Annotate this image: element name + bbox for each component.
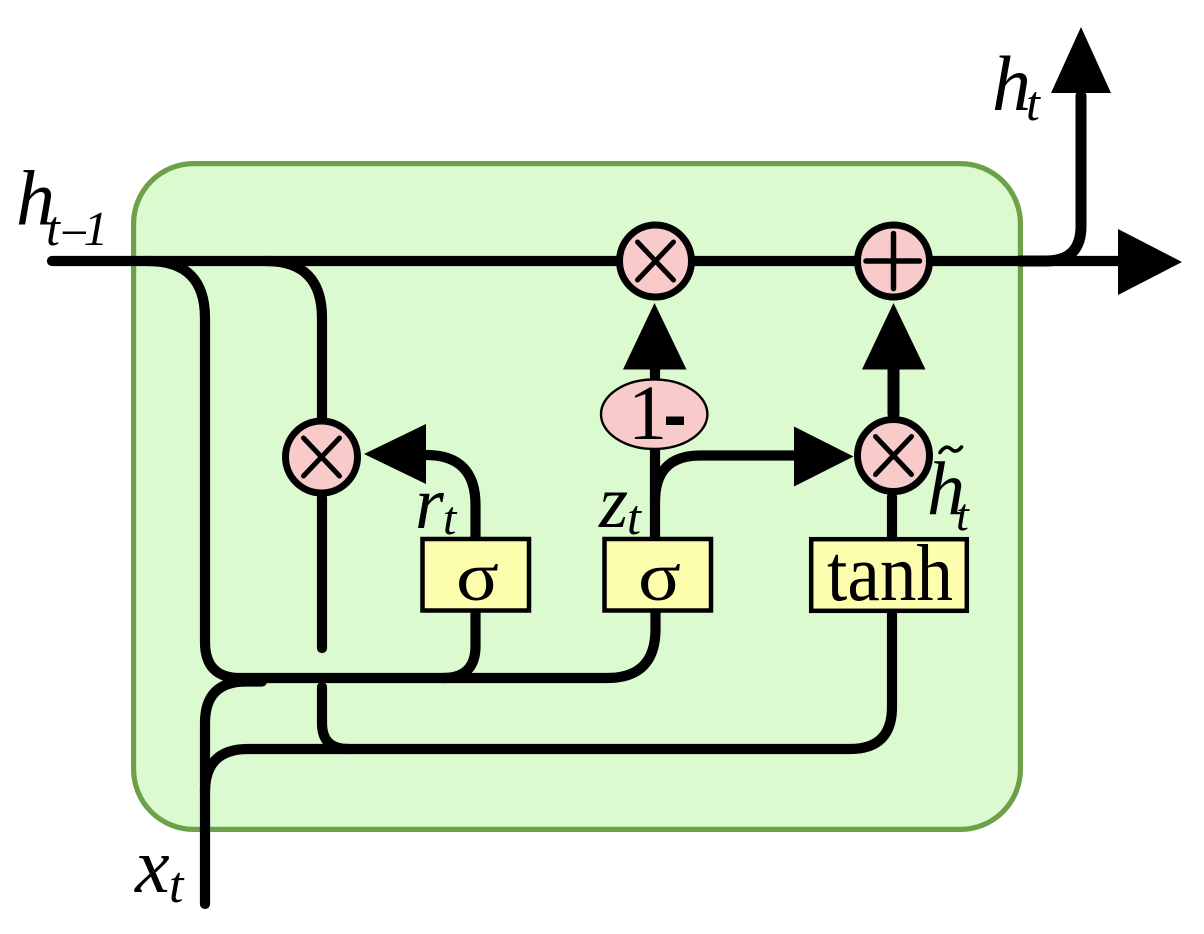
wire: candidate multiply up to plus <box>888 362 900 414</box>
svg-text:1: 1 <box>84 201 109 256</box>
arrowhead: into plus on bus <box>862 303 926 370</box>
gate: sigma_r box <box>423 538 530 615</box>
svg-text:σ: σ <box>456 538 499 615</box>
arrowhead: output right <box>1118 229 1182 295</box>
operator: 1- ellipse <box>601 369 707 456</box>
wire: drop 1 from top bus into bus1 and on to sigma_z <box>148 261 656 678</box>
arrowhead: r_t into reset multiply (points left) <box>364 424 426 484</box>
arrowhead: output top <box>1051 27 1111 93</box>
label: h_{t-1} <box>16 155 108 261</box>
gate: tanh box <box>811 530 967 618</box>
label: x_t <box>134 822 185 914</box>
label: h-tilde_t <box>927 447 970 540</box>
wire: stub from bus1 down to bus2 <box>322 687 348 749</box>
wire: sigma_z output up to 1- ellipse <box>650 450 660 538</box>
wire: dead-end below reset multiply <box>317 498 327 648</box>
operator: plus on bus <box>858 225 930 297</box>
svg-text:z: z <box>598 461 628 544</box>
svg-text:x: x <box>134 822 170 909</box>
svg-text:t: t <box>443 492 458 545</box>
gate: sigma_z box <box>605 538 712 615</box>
GRU cell body (green rounded box) <box>134 164 1021 830</box>
operator: candidate multiply <box>858 420 930 492</box>
svg-text:t: t <box>627 489 642 545</box>
operator: reset multiply <box>286 421 358 493</box>
svg-text:r: r <box>415 463 445 545</box>
svg-text:1: 1 <box>628 369 667 456</box>
svg-text:t: t <box>169 857 185 914</box>
wire: x_t riser merging into bus1 <box>205 682 262 905</box>
wire: z_t branch right toward candidate multiply <box>655 456 795 503</box>
label: h_t <box>992 40 1041 131</box>
label: z_t <box>598 461 642 545</box>
wire: h_{t-1} top bus <box>52 256 1118 266</box>
wire: tanh up to candidate multiply <box>887 497 897 538</box>
arrowhead: into multiply on bus <box>623 303 687 370</box>
wire: drop 2 from top bus into reset multiply <box>266 261 322 418</box>
wire: 1- ellipse up stub <box>650 364 660 377</box>
wire: h_t output branch up <box>1020 96 1081 261</box>
arrowhead: z_t into candidate multiply (points right) <box>794 427 854 487</box>
svg-text:t: t <box>956 489 970 540</box>
operator: multiply on bus <box>620 225 692 297</box>
wire: sigma_r output up and left to arrow <box>426 455 476 538</box>
wire: bus1 branch up into sigma_r <box>443 610 476 678</box>
label: r_t <box>415 463 458 545</box>
wire: x_t branch into bus2 and up into tanh <box>205 614 892 792</box>
svg-text:σ: σ <box>638 538 681 615</box>
svg-text:t: t <box>1026 75 1041 131</box>
svg-text:tanh: tanh <box>827 530 953 618</box>
